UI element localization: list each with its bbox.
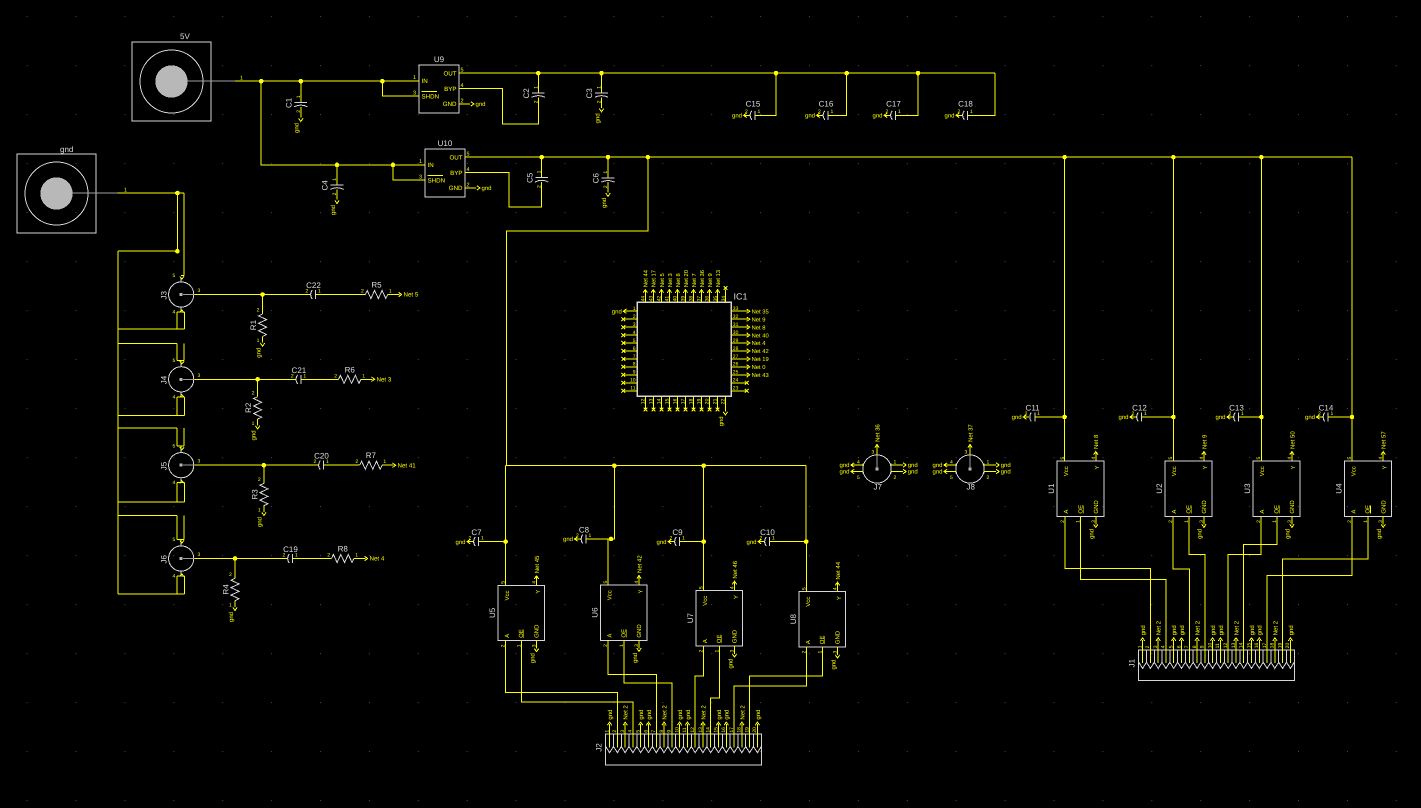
junction C8	[609, 537, 614, 542]
J2 pin 6 number	[643, 730, 649, 733]
svg-text:2: 2	[306, 289, 309, 295]
label R5	[371, 281, 382, 290]
J2 pin 9 number	[667, 730, 673, 733]
svg-text:Net 41: Net 41	[398, 462, 417, 469]
IC1 left pin 4 nc mark	[621, 333, 625, 337]
svg-text:gnd: gnd	[1012, 414, 1022, 421]
svg-text:15: 15	[665, 398, 671, 404]
svg-text:11: 11	[630, 386, 635, 392]
pin 1 label C12	[1144, 411, 1147, 417]
capacitor C12	[1137, 413, 1142, 422]
gnd flag U9	[471, 101, 486, 108]
svg-text:Y: Y	[1094, 465, 1101, 469]
svg-text:Y: Y	[1290, 465, 1297, 469]
J2 pin 8 number	[659, 730, 665, 733]
pin 1 label R3	[258, 508, 261, 514]
capacitor C14	[1323, 413, 1328, 422]
IC1 bottom pin 19 number	[697, 398, 703, 404]
J2 pin 16 number	[721, 727, 727, 733]
wire U3 A to J1	[1228, 516, 1261, 649]
J2 pin 4 number	[628, 730, 634, 733]
svg-text:gnd: gnd	[60, 145, 73, 154]
svg-text:IN: IN	[428, 162, 434, 169]
junction C7	[503, 539, 508, 544]
svg-text:Net 9: Net 9	[707, 273, 714, 287]
net label J1 pin 16	[1257, 625, 1264, 641]
BNC connector J6	[160, 542, 195, 576]
svg-text:gnd: gnd	[1197, 529, 1204, 539]
junction R7 row	[262, 463, 267, 468]
connector pad 5V	[132, 32, 211, 121]
svg-text:U3: U3	[1243, 483, 1252, 494]
IC1 pin 22 gnd flag	[718, 412, 727, 426]
resistor R3	[260, 483, 268, 505]
J1 pin 18 number	[1270, 643, 1276, 649]
svg-text:gnd: gnd	[839, 469, 849, 476]
junction C2	[536, 71, 541, 76]
label R2	[244, 402, 253, 413]
svg-text:2: 2	[469, 536, 472, 542]
wire C7 pin2	[467, 541, 473, 543]
IC1 right pin 29 number	[733, 338, 739, 344]
IC1 top pin 36 net label	[707, 273, 714, 293]
J1 pin 12 number	[1223, 643, 1229, 649]
wire C19 to R8	[293, 558, 332, 560]
J1 pin 8 number	[1192, 645, 1198, 648]
svg-text:41: 41	[665, 296, 671, 302]
connector pad gnd	[17, 145, 96, 233]
J2 pin 2 number	[612, 730, 618, 733]
svg-text:Vcc: Vcc	[1063, 466, 1070, 476]
svg-text:U4: U4	[1335, 483, 1344, 494]
svg-text:Net 50: Net 50	[1289, 431, 1296, 449]
wire J6 top pin drop B	[183, 515, 185, 539]
svg-text:gnd: gnd	[656, 539, 666, 546]
svg-text:Vcc: Vcc	[805, 597, 812, 607]
svg-text:Net 13: Net 13	[715, 270, 722, 287]
IC1 top pin 36 wire	[709, 290, 711, 303]
pin 5 arrow J5	[180, 447, 184, 450]
svg-text:1: 1	[1144, 411, 1147, 417]
wire J7 pin2	[891, 471, 903, 473]
J2 pin 12 number	[690, 727, 696, 733]
gnd flag U2	[1197, 516, 1206, 539]
svg-text:2: 2	[355, 459, 358, 465]
gnd flag C6	[601, 193, 610, 208]
BNC connector J5	[160, 448, 195, 482]
J1 pin 12 stub	[1227, 650, 1229, 663]
pin 1 label R2	[252, 421, 255, 427]
pin 2 label C15	[745, 109, 748, 115]
svg-text:4: 4	[633, 330, 636, 336]
IC1 right pin 29 net label	[747, 341, 767, 347]
net label J2 pin 3	[623, 705, 630, 726]
wire C21 to R6	[301, 378, 338, 380]
svg-text:Y: Y	[1202, 465, 1209, 469]
svg-text:1: 1	[296, 95, 302, 98]
pin 1 label C21	[303, 373, 306, 379]
label C17	[886, 100, 901, 109]
pin 2 label J7	[894, 475, 897, 481]
junction C4	[335, 163, 340, 168]
IC1 right pin 30 wire	[731, 334, 746, 336]
svg-text:A: A	[1063, 510, 1070, 514]
svg-text:2: 2	[818, 109, 821, 115]
svg-text:2: 2	[258, 477, 261, 483]
pin 1 label C13	[1241, 411, 1244, 417]
J1 pin 11 wire	[1219, 640, 1221, 650]
svg-text:R3: R3	[250, 489, 259, 500]
IC1 bottom pin 17 nc mark	[684, 408, 688, 412]
svg-text:gnd: gnd	[476, 101, 486, 108]
wire J3 bottom rung	[118, 328, 185, 330]
pin 5 label J5	[173, 444, 176, 450]
J1 pin 3 wire	[1157, 640, 1159, 650]
svg-text:4: 4	[173, 310, 176, 316]
IC1 bottom pin 17 wire	[684, 396, 686, 408]
IC1 right pin 26 net label	[747, 364, 766, 371]
svg-text:gnd: gnd	[646, 710, 653, 720]
capacitor C4	[330, 185, 343, 189]
J1 pin 3 number	[1153, 645, 1159, 648]
pin 2 label C5	[537, 185, 543, 188]
J2 pin 6 wire	[648, 724, 650, 734]
wire BNC to C22	[195, 294, 310, 296]
capacitor C19	[288, 554, 293, 563]
pin 1 label C16	[831, 109, 834, 115]
svg-text:2: 2	[252, 390, 255, 396]
svg-text:2: 2	[1132, 411, 1135, 417]
IC1 top pin 37 net label	[699, 270, 706, 293]
pin 1 label C18	[970, 109, 973, 115]
wire C6 bottom	[607, 182, 609, 192]
svg-text:U9: U9	[434, 55, 445, 64]
wire C9 pin2	[668, 541, 674, 543]
wire 5V pad stub (gray)	[188, 80, 235, 82]
junction 5V/C1	[299, 79, 304, 84]
wire gnd feed drop A	[176, 193, 178, 251]
pin 2 label C21	[291, 373, 294, 379]
wire J4 bottom pin drop B	[184, 397, 186, 416]
J2 pin 13 number	[698, 727, 704, 733]
wire R4 top	[234, 559, 236, 579]
svg-text:GND: GND	[732, 629, 739, 643]
gnd flag U5	[529, 641, 538, 664]
IC1 right pin 33 net label	[747, 308, 769, 315]
wire U2 OE to J1	[1189, 516, 1205, 649]
wire J4 top pin jog	[177, 359, 184, 361]
gnd flag C7	[455, 539, 470, 546]
label C8	[579, 526, 590, 535]
svg-text:gnd: gnd	[638, 710, 645, 720]
svg-text:A: A	[702, 639, 709, 643]
wire C4 top	[336, 165, 338, 185]
net label J1 pin 1	[1140, 625, 1147, 641]
J1 pin 9 number	[1200, 645, 1206, 648]
buffer U8	[789, 587, 846, 653]
gnd flag C17	[872, 113, 887, 120]
svg-text:1: 1	[355, 553, 358, 559]
svg-text:gnd: gnd	[908, 469, 918, 476]
svg-text:gnd: gnd	[250, 430, 257, 440]
svg-text:gnd: gnd	[1249, 625, 1256, 635]
junction C12 rail	[1171, 415, 1176, 420]
svg-text:gnd: gnd	[1210, 625, 1217, 635]
svg-text:1: 1	[326, 459, 329, 465]
svg-text:Net 2: Net 2	[662, 705, 669, 720]
gnd flag C4	[330, 200, 339, 215]
svg-text:36: 36	[705, 296, 711, 302]
svg-text:gnd: gnd	[1171, 625, 1178, 635]
IC1 right pin 23 nc mark	[745, 389, 749, 393]
pin 1 label C7	[481, 536, 484, 542]
IC1 left pin 11 wire	[623, 390, 637, 392]
resistor R6	[339, 375, 361, 383]
J1 pin 20 stub	[1289, 650, 1291, 663]
pin 2 label R5	[361, 289, 364, 295]
IC1 bottom pin 19 nc mark	[700, 408, 704, 412]
J1 pin 2 stub	[1149, 650, 1151, 663]
svg-text:1: 1	[383, 459, 386, 465]
svg-text:1: 1	[332, 178, 338, 181]
svg-text:10: 10	[630, 378, 636, 384]
junction C3	[599, 71, 604, 76]
buffer U1	[1047, 457, 1104, 523]
pin 2 label C2	[533, 100, 539, 103]
net label J2 pin 5	[638, 710, 645, 726]
IC1 top pin 44 number	[641, 296, 647, 302]
net label U6 Y	[636, 555, 643, 585]
svg-text:Net 8: Net 8	[752, 324, 766, 331]
junction 5V branch	[259, 79, 264, 84]
resistor R8	[332, 555, 354, 563]
pin header J2	[595, 734, 762, 765]
IC1 bottom pin 15 wire	[668, 396, 670, 408]
gnd flag R2	[250, 426, 259, 441]
J2 pin 19 number	[744, 727, 750, 733]
svg-text:Net 9: Net 9	[752, 316, 766, 323]
svg-text:Net 4: Net 4	[752, 341, 767, 347]
label C20	[314, 452, 329, 461]
junction C16 rail	[844, 71, 849, 76]
svg-text:18: 18	[689, 398, 695, 404]
IC1 top pin 42 net label	[659, 273, 666, 293]
svg-text:4: 4	[173, 394, 176, 400]
svg-text:1: 1	[1331, 411, 1334, 417]
svg-text:Vcc: Vcc	[1171, 466, 1178, 476]
svg-text:1: 1	[758, 109, 761, 115]
wire C18 pin2	[956, 114, 962, 116]
capacitor C1	[294, 102, 307, 106]
net label J2 pin 20	[755, 710, 762, 726]
label C5	[525, 172, 534, 183]
pin 1 label C17	[898, 109, 901, 115]
svg-text:J5: J5	[160, 461, 169, 470]
gnd flag U4	[1376, 516, 1385, 539]
junction C15 rail	[774, 71, 779, 76]
J1 pin 11 stub	[1219, 650, 1221, 663]
svg-text:gnd: gnd	[724, 710, 731, 720]
svg-text:U1: U1	[1047, 483, 1056, 494]
IC1 right pin 25 net label	[747, 372, 769, 379]
pin 1 label R6	[362, 373, 365, 379]
svg-text:R2: R2	[244, 402, 253, 413]
J2 pin 12 stub	[694, 734, 696, 747]
IC1 right pin 26 wire	[731, 366, 746, 368]
IC1 left pin 4 number	[633, 330, 636, 336]
pin 2 label C16	[818, 109, 821, 115]
IC1 top pin 41 wire	[668, 290, 670, 303]
J2 pin 7 number	[651, 730, 657, 733]
IC1 left pin 7 nc mark	[621, 357, 625, 361]
wire J3 top pin jog	[181, 274, 184, 276]
IC1 bottom pin 19 wire	[700, 396, 702, 408]
pin 5 label J8	[950, 475, 953, 481]
pin 4 arrow J3	[180, 310, 184, 313]
svg-text:gnd: gnd	[1140, 625, 1147, 635]
gnd flag C8	[563, 536, 578, 543]
IC1 right pin 32 wire	[731, 318, 746, 320]
svg-text:gnd: gnd	[294, 123, 301, 133]
IC1 top pin 35 number	[713, 296, 719, 302]
voltage regulator U10	[419, 139, 470, 197]
IC1 left pin 1 number	[633, 306, 636, 312]
svg-text:C17: C17	[886, 100, 901, 109]
pin 2 label R1	[257, 308, 260, 314]
svg-text:42: 42	[657, 296, 663, 302]
wire U9 OUT rail	[459, 72, 995, 74]
IC1 left pin 5 nc mark	[621, 341, 625, 345]
wire J5 bottom pin drop B	[184, 483, 186, 503]
svg-text:R8: R8	[338, 545, 349, 554]
J2 pin 18 number	[737, 727, 743, 733]
IC1 top pin 40 number	[673, 296, 679, 302]
svg-text:J6: J6	[160, 555, 169, 564]
label C13	[1229, 404, 1244, 413]
svg-text:Net 2: Net 2	[1272, 620, 1279, 635]
pin 2 label C11	[1025, 411, 1028, 417]
svg-text:R4: R4	[222, 584, 231, 595]
wire C20 to R7	[324, 464, 360, 466]
junction J3 top rung	[175, 249, 180, 254]
label R7	[366, 451, 377, 460]
svg-text:21: 21	[713, 398, 719, 404]
buffer U2	[1155, 457, 1212, 523]
J1 pin 4 stub	[1165, 650, 1167, 663]
label IC1	[734, 292, 748, 302]
svg-text:gnd: gnd	[228, 612, 235, 622]
J1 pin 15 wire	[1251, 640, 1253, 650]
gnd flag U8	[830, 647, 839, 670]
junction C17 rail	[916, 71, 921, 76]
wire U3 OE to J1	[1244, 516, 1277, 649]
svg-text:GND: GND	[443, 101, 457, 108]
J2 pin 13 stub	[702, 734, 704, 747]
svg-text:20: 20	[705, 398, 711, 404]
pin 1 label C10	[772, 536, 775, 542]
svg-text:A: A	[1171, 510, 1178, 514]
wire C22 to R5	[316, 294, 366, 296]
net label J1 pin 11	[1218, 625, 1225, 641]
svg-text:A: A	[1259, 510, 1266, 514]
label C1	[285, 97, 294, 108]
svg-text:Vcc: Vcc	[606, 590, 613, 600]
svg-text:GND: GND	[1380, 500, 1387, 514]
wire BNC to C19	[195, 558, 287, 560]
wire U1 A to J1	[1065, 516, 1151, 649]
wire J5 top pin drop A	[176, 428, 178, 446]
svg-text:Vcc: Vcc	[702, 596, 709, 606]
pin 1 label C11	[1037, 411, 1040, 417]
IC1 top pin 34 number	[721, 296, 727, 302]
svg-text:29: 29	[733, 338, 739, 344]
wire R3 bottom	[263, 506, 265, 512]
svg-text:C2: C2	[522, 88, 531, 99]
net label U5 Y	[534, 555, 541, 585]
label R6	[345, 365, 356, 374]
wire J6 bottom pin jog	[177, 575, 184, 577]
pin 2 label J8	[987, 475, 990, 481]
junction U10 SHDN branch	[391, 163, 396, 168]
J1 pin 6 stub	[1181, 650, 1183, 663]
J1 pin 8 stub	[1196, 650, 1198, 663]
svg-text:1: 1	[589, 533, 592, 539]
svg-text:2: 2	[1318, 411, 1321, 417]
pin 1 label C15	[758, 109, 761, 115]
capacitor C18	[963, 111, 968, 120]
svg-text:1: 1	[537, 170, 543, 173]
svg-text:Net 2: Net 2	[623, 705, 630, 720]
label R3	[250, 489, 259, 500]
wire U1 OE to J1	[1081, 516, 1166, 649]
J2 pin 11 number	[682, 727, 688, 732]
J1 pin 19 number	[1277, 643, 1283, 649]
svg-text:gnd: gnd	[677, 710, 684, 720]
IC1 right pin 23 wire	[731, 390, 746, 392]
IC1 bottom pin 16 wire	[676, 396, 678, 408]
gnd flag J8 pin4	[932, 462, 947, 469]
svg-text:C16: C16	[819, 100, 834, 109]
svg-text:C4: C4	[321, 180, 330, 191]
svg-text:3: 3	[198, 373, 201, 379]
gnd flag U10	[477, 185, 492, 192]
capacitor C6	[601, 178, 614, 182]
wire R4 bottom	[234, 601, 236, 607]
J1 pin 1 number	[1137, 645, 1143, 648]
junction rail U3	[1259, 155, 1264, 160]
capacitor C10	[765, 537, 770, 546]
J1 pin 10 number	[1207, 643, 1213, 649]
J2 pin 15 number	[713, 727, 719, 733]
svg-text:GND: GND	[1093, 500, 1100, 514]
IC1 right pin 30 number	[733, 330, 739, 336]
wire J4 bottom pin drop A	[176, 397, 178, 416]
wire C1 top	[300, 81, 302, 102]
svg-text:gnd: gnd	[805, 113, 815, 120]
svg-text:GND: GND	[534, 624, 541, 638]
svg-text:1: 1	[481, 536, 484, 542]
svg-text:1: 1	[252, 421, 255, 427]
J2 pin 9 stub	[671, 734, 673, 747]
J2 pin 1 number	[604, 730, 610, 733]
junction rail U2	[1171, 155, 1176, 160]
pin 2 label C10	[760, 536, 763, 542]
IC1 bottom pin 17 number	[681, 398, 687, 404]
net label J1 pin 10	[1210, 625, 1217, 641]
J1 pin 15 number	[1246, 643, 1252, 649]
pin 2 label C3	[597, 100, 603, 103]
wire U7 Vcc drop	[703, 466, 705, 591]
